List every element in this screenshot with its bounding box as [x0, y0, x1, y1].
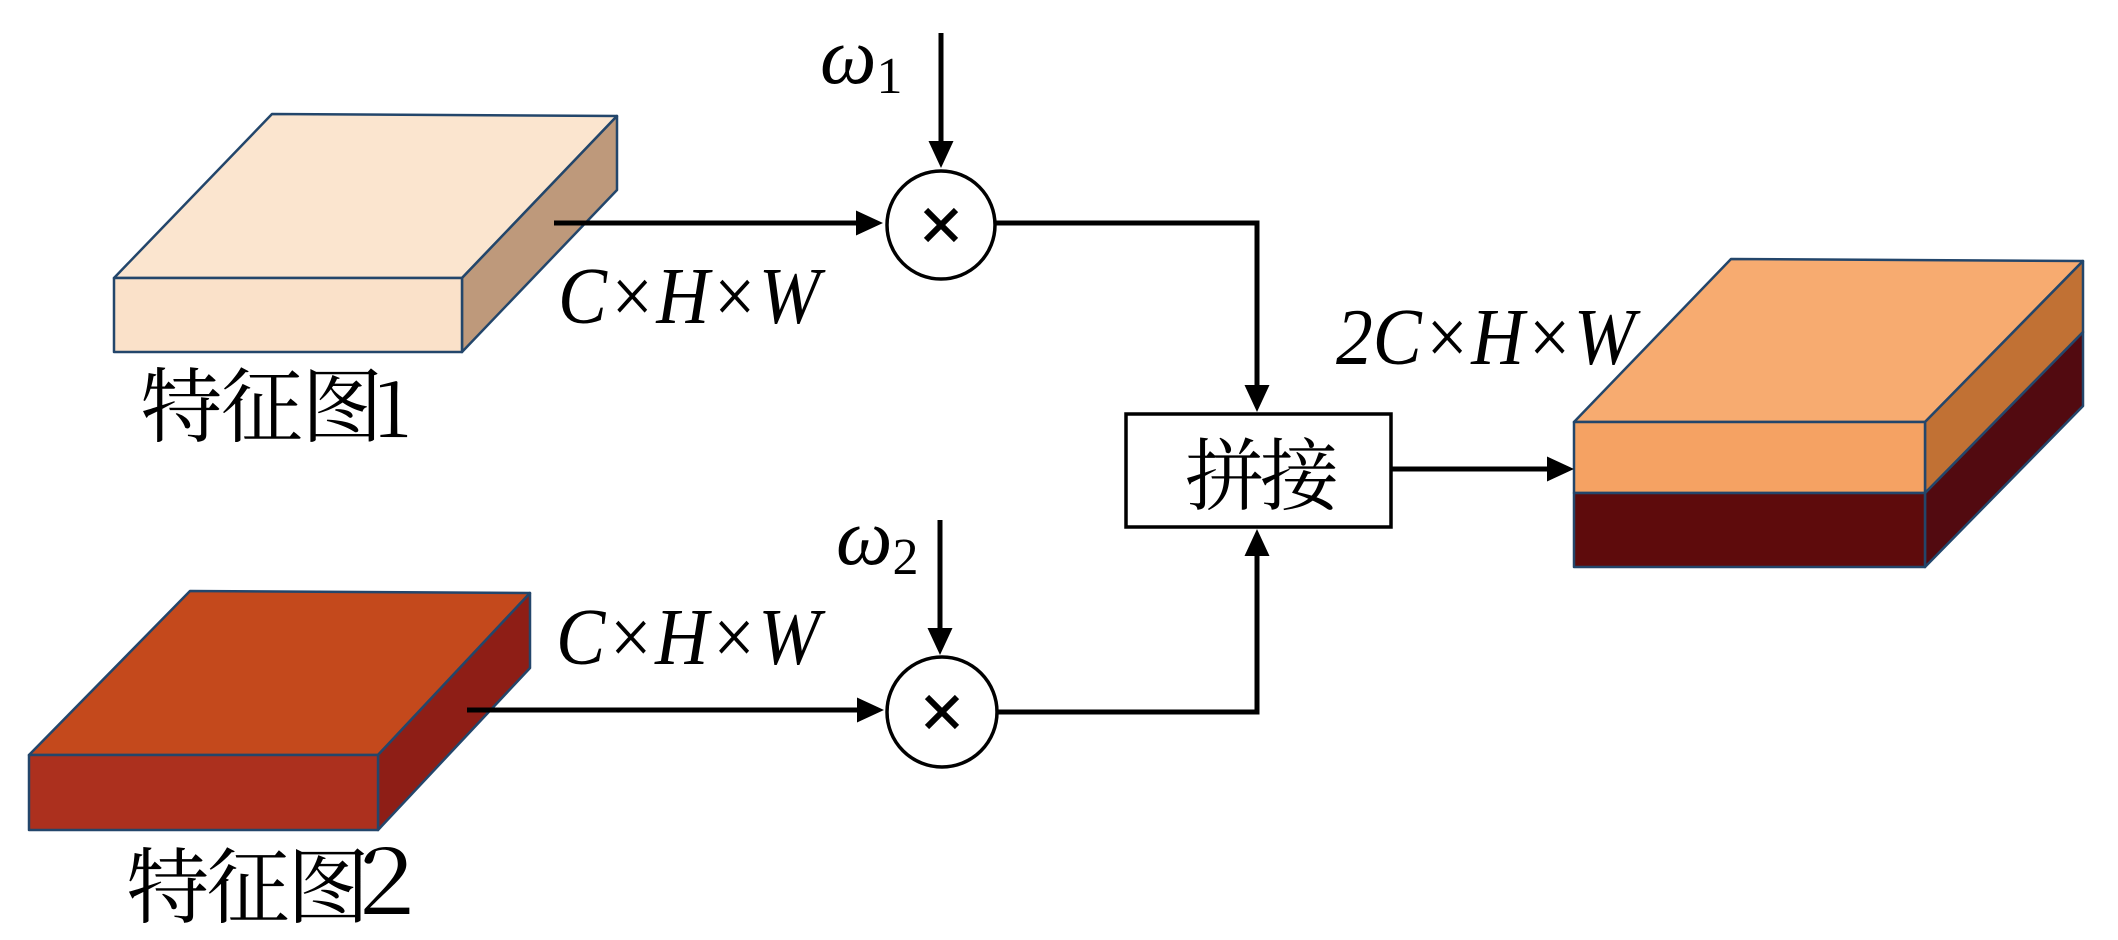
- wire: omega2 into multiplier 2: [938, 520, 943, 632]
- feature-map-1 block top face: [114, 114, 617, 278]
- feature-map-2 block front face: [29, 755, 378, 830]
- label 特征图1: [143, 367, 220, 442]
- feature-map-1 block front face: [114, 278, 462, 352]
- svg-text:C×H×W: C×H×W: [556, 592, 826, 682]
- svg-text:C×H×W: C×H×W: [558, 251, 826, 341]
- feature-map-2 block side face: [378, 593, 530, 830]
- label 特征图2: [129, 847, 207, 923]
- feature-map-1 block side face: [462, 116, 617, 352]
- output box top face: [1574, 259, 2083, 422]
- wire: multiplier 2 elbow to concat box bottom: [997, 710, 1260, 715]
- svg-text:2C×H×W: 2C×H×W: [1336, 292, 1641, 382]
- wire: concat box to output block: [1391, 467, 1550, 472]
- multiplier 1 X symbol: [926, 210, 956, 240]
- concat box label 拼接: [1187, 437, 1261, 510]
- output box front face orange upper layer: [1574, 422, 1925, 493]
- output box side face orange upper layer: [1925, 261, 2083, 493]
- feature-map-2 block top face: [29, 591, 530, 755]
- wire: feature map 2 to multiplier 2: [467, 708, 858, 713]
- concat (pinjie) box: [1126, 414, 1391, 527]
- wire: multiplier 1 elbow to concat box top: [995, 221, 1260, 226]
- multiplier 1 circle: [887, 171, 995, 279]
- output box front face dark-red lower layer: [1574, 493, 1925, 567]
- output box side face dark-red lower layer: [1925, 332, 2083, 567]
- wire: feature map 1 to multiplier 1: [554, 221, 858, 226]
- wire: omega1 into multiplier 1: [939, 33, 944, 145]
- multiplier 2 X symbol: [927, 697, 957, 727]
- multiplier 2 circle: [887, 657, 997, 767]
